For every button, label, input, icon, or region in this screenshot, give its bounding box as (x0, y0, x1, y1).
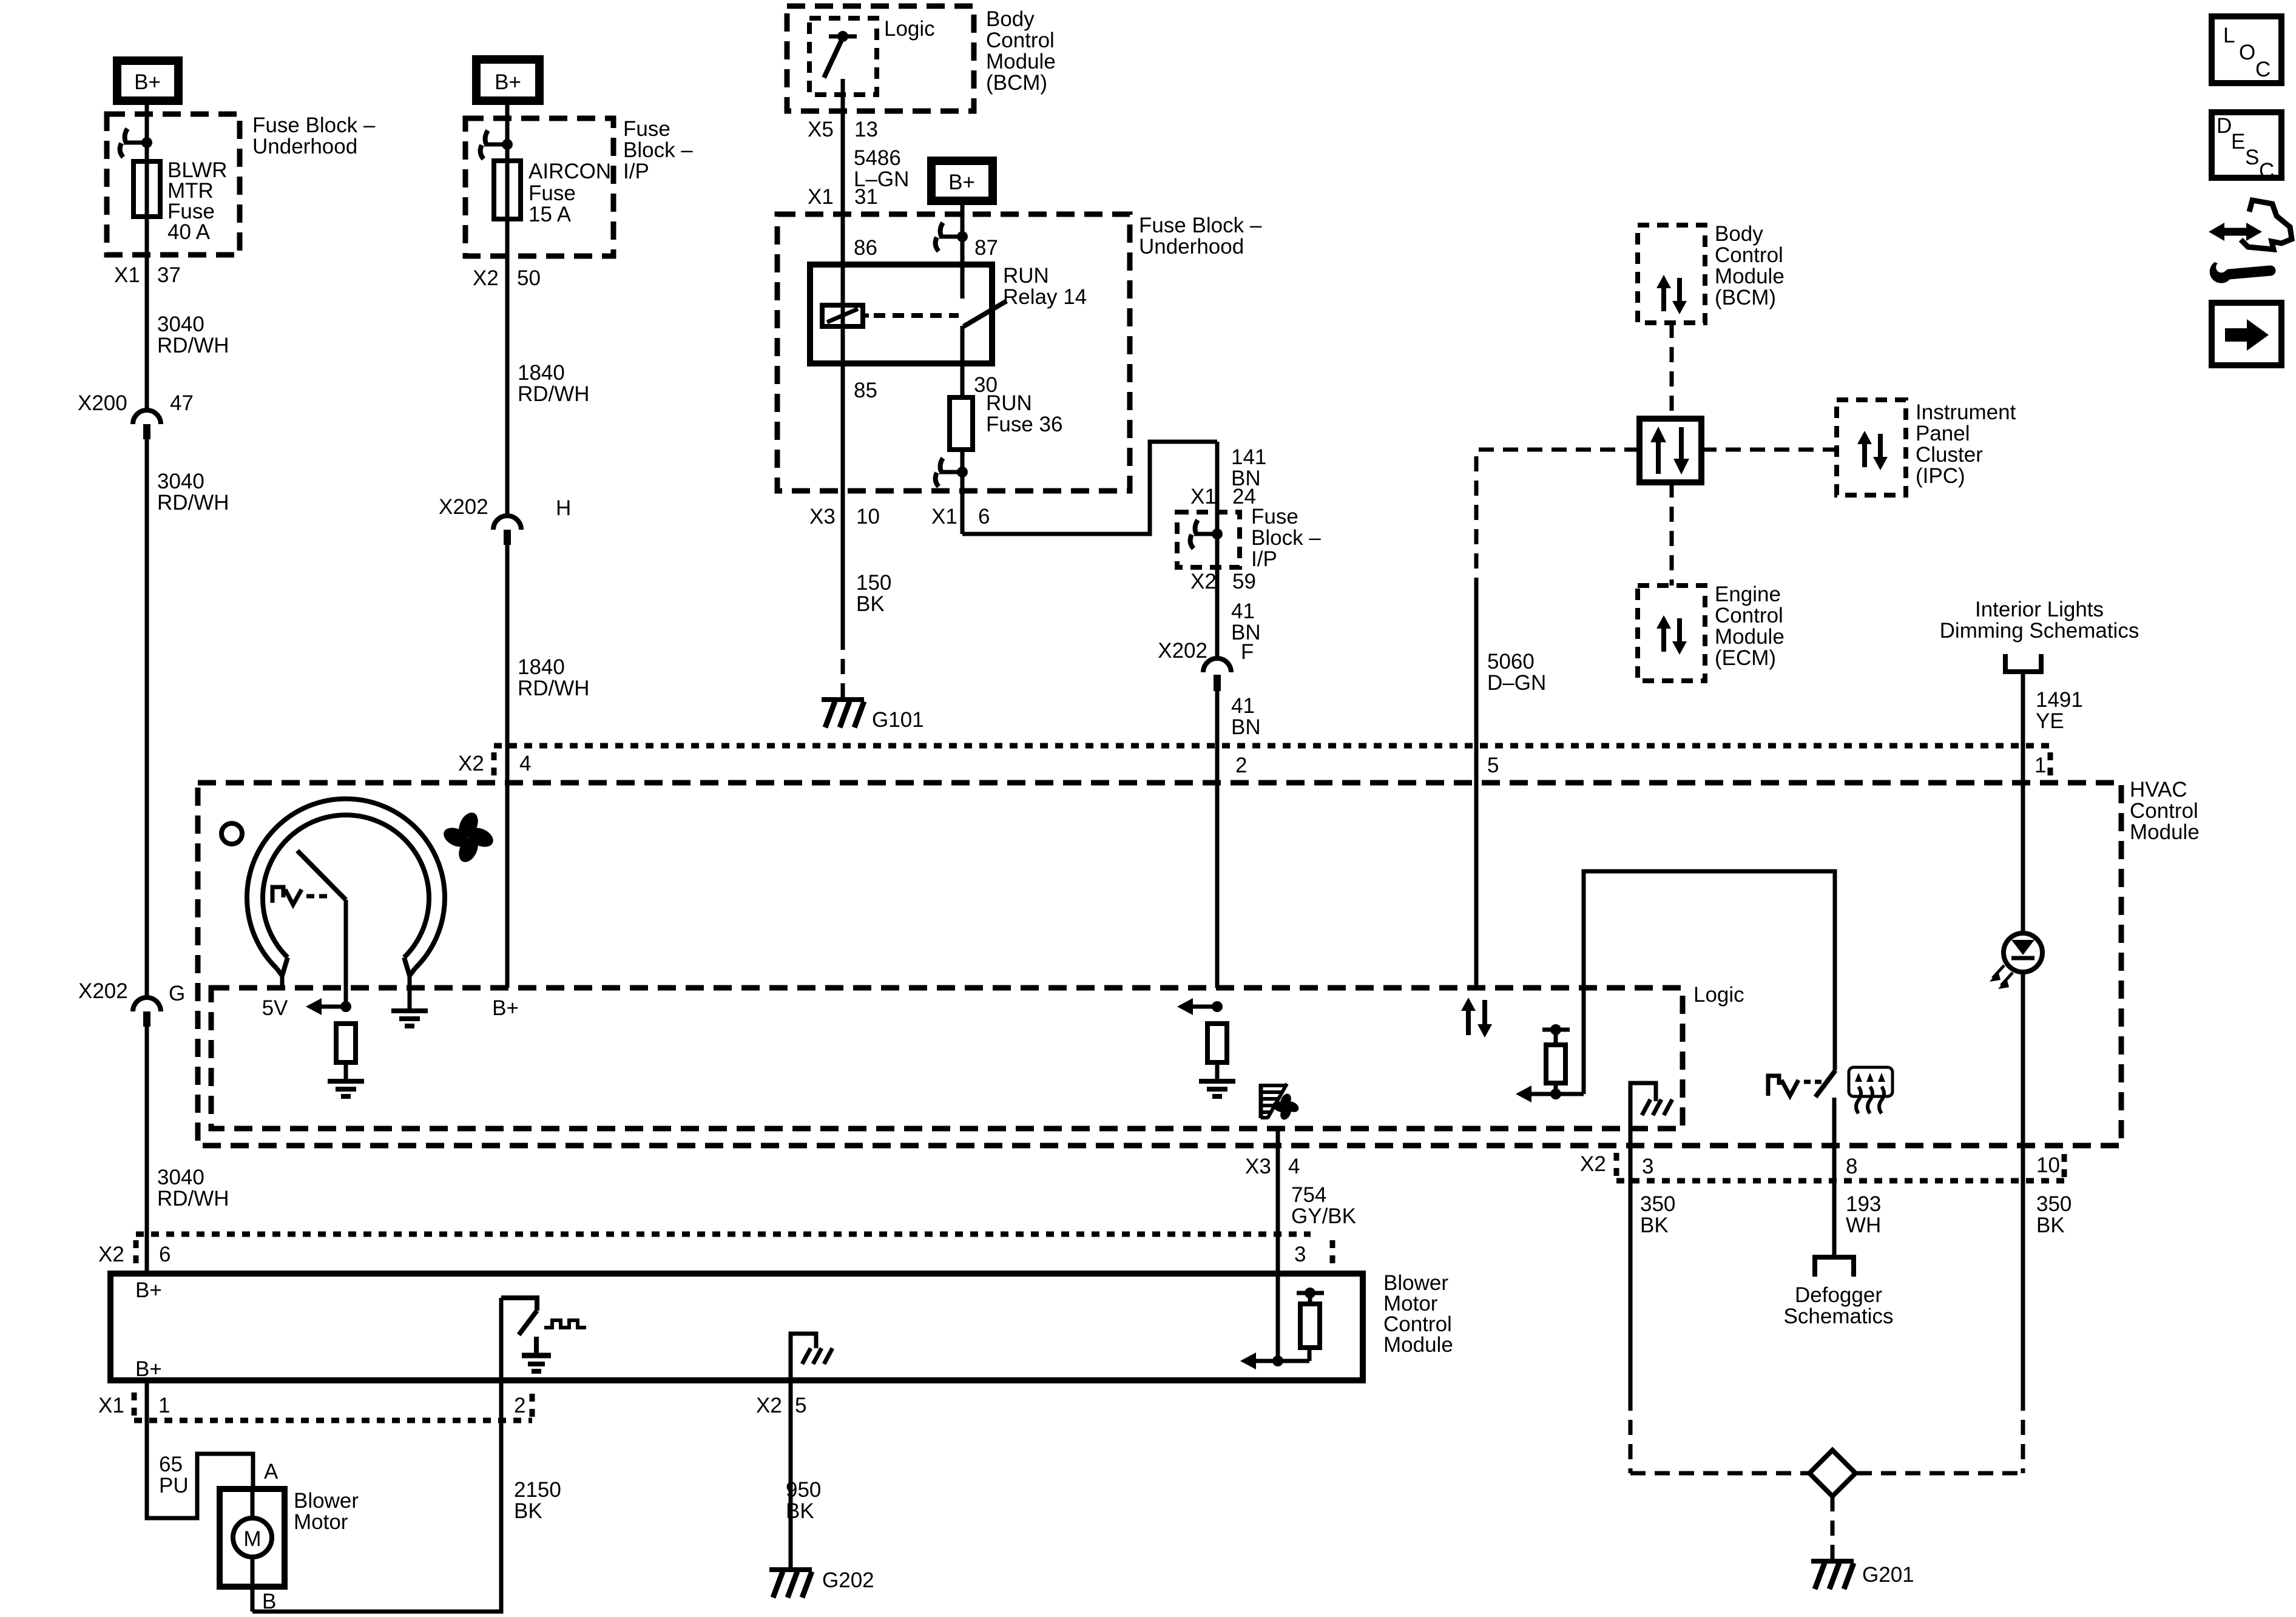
ground G201 (1811, 1561, 1914, 1589)
svg-text:37: 37 (157, 263, 181, 287)
label: Interior Lights Dimming Schematics (1940, 598, 2139, 643)
resistor: speed input bleed with rail bar (1297, 1288, 1324, 1361)
serial data arrows (HVAC pin 5 input) (1461, 998, 1492, 1038)
svg-text:Schematics: Schematics (1784, 1305, 1894, 1328)
svg-text:1491: 1491 (2036, 688, 2083, 712)
svg-text:6: 6 (978, 505, 990, 528)
svg-text:Module: Module (986, 50, 1056, 73)
svg-text:AIRCON: AIRCON (528, 160, 611, 183)
svg-text:H: H (556, 496, 571, 520)
svg-text:BN: BN (1231, 715, 1261, 739)
RUN Relay 14 box (810, 265, 992, 363)
svg-text:X5: X5 (808, 118, 834, 141)
wire: pin 3 dashed drop to splice (1629, 1396, 1633, 1473)
svg-text:B+: B+ (135, 1278, 162, 1302)
svg-text:RD/WH: RD/WH (157, 1187, 229, 1210)
wire: resistor to ground (344, 1062, 348, 1079)
svg-text:13: 13 (854, 118, 878, 141)
svg-text:Engine: Engine (1715, 582, 1781, 606)
wire label 193 WH (1846, 1192, 1881, 1237)
wire: relay pin 30 to RUN fuse 36 (961, 363, 965, 397)
wire: BCM X5-13 to relay coil pin 86 (841, 79, 845, 363)
wire label 41 BN (upper) (1231, 599, 1261, 644)
indicator circle (blower knob) (221, 823, 242, 844)
svg-text:G: G (169, 982, 185, 1005)
label: Fuse Block - I/P (623, 117, 693, 183)
transistor chopper (blower drive) (501, 1298, 537, 1335)
svg-text:31: 31 (854, 185, 878, 209)
svg-text:C: C (2259, 159, 2274, 183)
connector line X1 blower module bottom (dotted) (98, 1393, 532, 1420)
svg-text:X2: X2 (1190, 570, 1217, 593)
relay linkage (dashed) (874, 313, 959, 318)
svg-text:3: 3 (1294, 1243, 1306, 1266)
serial data arrows in IPC (1857, 431, 1888, 470)
wire: 5060 D-GN solid to HVAC pin 5 (1474, 584, 1479, 988)
label: RUN Fuse 36 (986, 391, 1062, 436)
wire label 350 BK (left) (1640, 1192, 1675, 1237)
wire: dashed ground bus to splice diamond (1630, 1471, 1808, 1476)
wire label 1840 RD/WH (upper) (518, 361, 590, 406)
label: Defogger Schematics (1784, 1283, 1894, 1328)
pin labels X3 | 4 (1245, 1155, 1300, 1178)
pin label X2 | 5 (blower module) (756, 1394, 806, 1417)
wire: pin 1 to blower motor terminal A (147, 1380, 253, 1518)
svg-text:Cluster: Cluster (1916, 443, 1983, 467)
connector line X2 at HVAC bottom (dotted) (1580, 1152, 2064, 1181)
fuse block underhood dashed box (left) (107, 114, 240, 255)
label: RUN Relay 14 (1003, 264, 1087, 309)
svg-text:Logic: Logic (884, 17, 935, 41)
wire: logic to defogger switch loop (1584, 871, 1835, 1094)
wire label 3040 RD/WH (upper) (157, 312, 229, 357)
svg-text:Relay 14: Relay 14 (1003, 285, 1087, 309)
battery feed B+ symbol 1 (BLWR MTR circuit) (117, 61, 178, 101)
svg-text:B+: B+ (135, 1357, 162, 1381)
connector hook below fuse 36 (936, 458, 968, 487)
pin labels X5 | 13 (808, 118, 878, 141)
svg-text:50: 50 (517, 266, 541, 290)
svg-text:X2: X2 (473, 266, 499, 290)
dashed serial data wire splice to IPC (1701, 448, 1837, 452)
svg-text:Interior Lights: Interior Lights (1975, 598, 2104, 621)
off-page reference bracket (interior lights dimming) (2005, 654, 2041, 672)
svg-text:87: 87 (974, 236, 998, 260)
svg-text:X1: X1 (931, 505, 957, 528)
svg-text:YE: YE (2036, 709, 2064, 733)
svg-text:A: A (264, 1460, 279, 1484)
wire label 1491 YE (2036, 688, 2083, 733)
serial data splice box (1639, 419, 1701, 482)
svg-text:2: 2 (1235, 754, 1247, 777)
connector X202 pin H (439, 495, 571, 545)
svg-text:2: 2 (514, 1394, 525, 1417)
label: Body Control Module (BCM) right (1715, 222, 1784, 309)
svg-text:141: 141 (1231, 445, 1266, 469)
wire label 3040 RD/WH (middle) (157, 470, 229, 515)
svg-text:(IPC): (IPC) (1916, 464, 1965, 488)
svg-text:350: 350 (1640, 1192, 1675, 1216)
resistor: pin 2 pulldown (1207, 1024, 1227, 1062)
svg-text:193: 193 (1846, 1192, 1881, 1216)
svg-text:Fuse: Fuse (1251, 505, 1298, 528)
node: pin 3 speed input with arrow (1240, 1274, 1309, 1369)
LOC reference box (2212, 16, 2281, 83)
blower motor (220, 1489, 285, 1612)
svg-text:G201: G201 (1862, 1563, 1914, 1587)
svg-text:D–GN: D–GN (1487, 671, 1546, 695)
dial wiper with variable-voltage mark (272, 851, 346, 1007)
svg-text:5060: 5060 (1487, 650, 1535, 673)
svg-text:5: 5 (795, 1394, 806, 1417)
svg-text:(BCM): (BCM) (986, 71, 1047, 95)
ground G202 (769, 1568, 874, 1598)
DESC reference box (2212, 112, 2281, 183)
splice diamond (1809, 1450, 1855, 1496)
body control module (BCM) dashed box (787, 6, 974, 111)
svg-text:Instrument: Instrument (1916, 400, 2016, 424)
label: Fuse Block - Underhood (relay) (1139, 214, 1262, 258)
svg-text:Underhood: Underhood (252, 135, 357, 158)
dashed serial data wire splice to ECM (1670, 482, 1674, 586)
svg-text:B+: B+ (948, 170, 975, 194)
svg-text:Dimming Schematics: Dimming Schematics (1940, 619, 2139, 643)
pin labels X1 | 37 (114, 263, 181, 287)
svg-text:Motor: Motor (294, 1510, 348, 1534)
svg-text:Control: Control (1715, 243, 1783, 267)
svg-text:Module: Module (1715, 265, 1784, 288)
svg-text:4: 4 (519, 752, 531, 775)
svg-text:Fuse Block –: Fuse Block – (252, 113, 376, 137)
svg-text:B+: B+ (492, 996, 519, 1020)
svg-text:41: 41 (1231, 599, 1255, 623)
connector line X2 at HVAC top (dotted) (458, 746, 2050, 775)
svg-text:X2: X2 (98, 1243, 124, 1266)
svg-text:754: 754 (1291, 1183, 1326, 1207)
svg-text:D: D (2217, 114, 2232, 138)
svg-text:(BCM): (BCM) (1715, 286, 1776, 309)
engine control module (ECM) dashed box (1638, 586, 1705, 681)
connector hook at BLWR fuse feed (120, 129, 152, 157)
wire: pin 5 to G202 (789, 1380, 793, 1568)
resistor: logic feedback with rail bar (1542, 1024, 1570, 1099)
pin labels X3 | 10 (809, 505, 880, 528)
node: feedback arrow to logic (1516, 1085, 1584, 1102)
svg-text:Body: Body (1715, 222, 1763, 246)
svg-text:59: 59 (1232, 570, 1256, 593)
svg-text:65: 65 (159, 1453, 183, 1476)
relay switch blade (964, 301, 1007, 326)
svg-text:15 A: 15 A (528, 203, 572, 226)
svg-text:BK: BK (1640, 1214, 1669, 1237)
wire: module ground pin 5 internal with case ground (791, 1334, 832, 1380)
svg-text:Fuse 36: Fuse 36 (986, 413, 1062, 436)
wire label 1840 RD/WH (lower) (518, 655, 590, 700)
svg-text:S: S (2245, 146, 2259, 169)
svg-text:X3: X3 (1245, 1155, 1271, 1178)
svg-text:X2: X2 (756, 1394, 782, 1417)
svg-text:BK: BK (2036, 1214, 2065, 1237)
wire: X200 to X202 G (145, 439, 149, 998)
svg-text:1: 1 (2034, 754, 2046, 777)
dashed serial data wire BCM to splice box (1670, 323, 1674, 419)
svg-text:RD/WH: RD/WH (518, 677, 590, 700)
wire: B+ to relay pin 87 (961, 204, 965, 299)
svg-text:X2: X2 (458, 752, 484, 775)
connector hook at AIRCON fuse feed (481, 130, 513, 159)
wire: 1491 YE to HVAC pin 1 and LED (2021, 672, 2025, 934)
ground G101 (822, 700, 924, 732)
resistor: wiper pulldown (336, 1024, 356, 1062)
svg-text:6: 6 (159, 1243, 171, 1266)
svg-text:3040: 3040 (157, 1166, 204, 1189)
wire: fuse 36 to corner (961, 450, 965, 534)
wire: X202 H to HVAC pin 4 (505, 545, 510, 988)
fuse block I/P dashed box (AIRCON) (465, 118, 613, 256)
fuse RUN Fuse 36 (950, 397, 973, 450)
wire label 5060 D-GN (1487, 650, 1546, 695)
svg-text:B+: B+ (495, 70, 521, 94)
svg-text:85: 85 (854, 379, 877, 402)
fuse block I/P small dashed box (1177, 512, 1240, 567)
svg-text:47: 47 (170, 391, 194, 415)
wire: motor B return to pin 2 (252, 1380, 501, 1612)
serial data arrows in BCM (1656, 275, 1687, 314)
wire: chopper to pin 2 (499, 1298, 504, 1380)
connector X202 pin F (1158, 639, 1254, 691)
svg-text:(ECM): (ECM) (1715, 646, 1776, 670)
svg-text:RUN: RUN (1003, 264, 1049, 288)
svg-text:5V: 5V (262, 996, 288, 1020)
fan icon (small, speed output) (1271, 1092, 1301, 1122)
pin labels X1 | 6 (931, 505, 990, 528)
wire: defogger switch to pin 8 (1832, 1098, 1837, 1255)
connector X200 pin 47 (78, 391, 194, 439)
svg-text:GY/BK: GY/BK (1291, 1204, 1356, 1228)
svg-text:C: C (2255, 58, 2271, 81)
svg-text:1840: 1840 (518, 655, 565, 679)
svg-text:G202: G202 (822, 1568, 874, 1592)
svg-text:BK: BK (514, 1499, 542, 1523)
wire label 350 BK (right) (2036, 1192, 2071, 1237)
wire label 950 BK (786, 1478, 821, 1523)
label: Blower Motor Control Module (1383, 1271, 1453, 1357)
svg-text:5: 5 (1487, 754, 1499, 777)
svg-text:Blower: Blower (294, 1489, 359, 1513)
svg-text:10: 10 (856, 505, 880, 528)
label: BLWR MTR Fuse 40 A (167, 158, 228, 244)
svg-text:Fuse: Fuse (528, 181, 576, 205)
pin labels X1 | 31 (808, 185, 878, 209)
dashed serial data wire splice to HVAC (5060) (1476, 450, 1639, 584)
wire label 150 BK (856, 571, 891, 616)
LED indicator (backlight) (1990, 933, 2042, 989)
ground (wiper pulldown) (328, 1081, 364, 1096)
svg-text:Control: Control (1715, 604, 1783, 627)
connector line X2 blower module top (dotted) (98, 1234, 1332, 1266)
svg-text:X1: X1 (808, 185, 834, 209)
label: Instrument Panel Cluster (IPC) (1916, 400, 2016, 488)
svg-text:O: O (2239, 41, 2255, 64)
fuse block underhood dashed box (relay) (777, 214, 1130, 491)
svg-text:Fuse Block –: Fuse Block – (1139, 214, 1262, 237)
off-page reference bracket (defogger schematics) (1815, 1257, 1854, 1277)
svg-text:1840: 1840 (518, 361, 565, 385)
service/repair vehicle icon (2209, 200, 2292, 283)
wire label 2150 BK (514, 1478, 561, 1523)
svg-text:PU: PU (159, 1474, 189, 1497)
svg-text:BK: BK (856, 592, 885, 616)
svg-text:5486: 5486 (854, 146, 901, 170)
svg-text:B+: B+ (134, 70, 161, 94)
svg-text:4: 4 (1288, 1155, 1300, 1178)
blower speed output icon (ramp and fan) (1261, 1084, 1287, 1118)
wire label 141 BN (1231, 445, 1266, 490)
svg-text:L: L (2223, 24, 2235, 47)
connector hook inside fuse block I/P (1190, 520, 1223, 549)
svg-text:3040: 3040 (157, 470, 204, 493)
svg-text:I/P: I/P (1251, 547, 1277, 571)
svg-text:Underhood: Underhood (1139, 235, 1244, 258)
svg-text:WH: WH (1846, 1214, 1881, 1237)
defogger heater icon (1849, 1067, 1893, 1113)
node: wiper sense with arrow to logic (306, 998, 351, 1015)
wire: 141 BN down to HVAC pin 2 (1215, 442, 1220, 659)
wire: diamond dashed drop to G201 (1831, 1496, 1835, 1559)
wire: B+ to AIRCON fuse to X202 H (505, 104, 510, 515)
svg-text:Block –: Block – (623, 138, 693, 162)
HVAC internal logic dashed box (211, 988, 1683, 1129)
svg-text:350: 350 (2036, 1192, 2071, 1216)
blower motor control module box (110, 1274, 1363, 1380)
ground (pin 2 pulldown) (1199, 1081, 1235, 1096)
fan icon (blower speed control) (441, 809, 496, 865)
PWM waveform icon (544, 1320, 586, 1328)
label: HVAC Control Module (2130, 778, 2200, 844)
connector hook at relay pin 87 feed (936, 223, 968, 251)
svg-text:F: F (1241, 640, 1254, 664)
wire: pin 10 dashed drop to splice (2021, 1396, 2025, 1473)
svg-text:2150: 2150 (514, 1478, 561, 1502)
svg-text:E: E (2231, 130, 2245, 154)
svg-text:Control: Control (2130, 799, 2198, 823)
svg-text:I/P: I/P (623, 160, 649, 183)
wire label 3040 RD/WH (lower) (157, 1166, 229, 1210)
pin labels X2 | 50 (473, 266, 541, 290)
label: Body Control Module (BCM) (986, 7, 1056, 95)
svg-text:RD/WH: RD/WH (157, 334, 229, 357)
svg-text:M: M (243, 1527, 261, 1551)
wire label 754 GY/BK (1291, 1183, 1356, 1228)
svg-text:X1: X1 (114, 263, 140, 287)
svg-text:Block –: Block – (1251, 526, 1321, 550)
wire label 41 BN (lower) (1231, 694, 1261, 739)
HVAC control module dashed box (198, 783, 2121, 1146)
wire: HVAC ground pin 3 internal with case ground (1630, 1083, 1672, 1396)
svg-text:RUN: RUN (986, 391, 1032, 415)
instrument panel cluster (IPC) dashed box (1837, 400, 1906, 495)
body control module (BCM) serial data dashed box (1638, 225, 1705, 323)
ground (chopper reference) (522, 1337, 551, 1371)
svg-text:X1: X1 (98, 1394, 124, 1417)
pin labels X2 | 59 (1190, 570, 1256, 593)
svg-text:X3: X3 (809, 505, 836, 528)
svg-text:Module: Module (2130, 820, 2200, 844)
svg-text:86: 86 (854, 236, 877, 260)
battery feed B+ symbol 2 (AIRCON circuit) (476, 59, 539, 101)
svg-text:150: 150 (856, 571, 891, 595)
wire: dashed drop to G101 (841, 635, 845, 698)
serial data arrows in splice box (1650, 427, 1689, 474)
wire: LED to pin 10 (2021, 971, 2025, 1396)
fuse AIRCON 15A (494, 161, 521, 219)
svg-text:Panel: Panel (1916, 422, 1970, 445)
wire: HVAC X3-4 speed signal to blower module pin 3 (1276, 1129, 1280, 1274)
serial data arrows in ECM (1656, 615, 1687, 655)
svg-text:Fuse: Fuse (623, 117, 670, 141)
thermal switch (defogger control) (1768, 1070, 1835, 1097)
pin labels X1 | 24 (1190, 485, 1256, 508)
svg-text:Module: Module (1715, 625, 1784, 649)
wire: B+ to BLWR MTR fuse to X200 (145, 104, 149, 410)
wire: relay pin 30 pivot (961, 326, 965, 363)
svg-text:Body: Body (986, 7, 1035, 31)
svg-text:X2: X2 (1580, 1152, 1606, 1176)
svg-text:10: 10 (2036, 1153, 2060, 1177)
label: AIRCON Fuse 15 A (528, 160, 611, 226)
svg-text:40 A: 40 A (167, 220, 211, 244)
relay coil (822, 305, 869, 326)
svg-text:G101: G101 (872, 708, 924, 732)
svg-text:41: 41 (1231, 694, 1255, 718)
svg-text:Module: Module (1383, 1333, 1453, 1357)
next-page arrow box (2212, 303, 2281, 365)
wire: relay pin 85 to G101 (solid part) (841, 363, 845, 635)
ground (dial right leg) (391, 1011, 428, 1026)
wire: X202 G to blower motor control module (145, 1027, 149, 1274)
svg-text:Control: Control (986, 29, 1055, 52)
svg-text:X200: X200 (78, 391, 127, 415)
svg-text:3040: 3040 (157, 312, 204, 336)
node: pin 2 input with arrow to logic (1177, 998, 1223, 1015)
switch inside BCM logic (824, 31, 857, 78)
wire: run feed jog to fuse block I/P (141 BN) (962, 442, 1217, 534)
svg-text:HVAC: HVAC (2130, 778, 2187, 802)
svg-text:X1: X1 (1190, 485, 1217, 508)
label: Fuse Block - Underhood (252, 113, 376, 158)
connector X202 pin G (78, 979, 185, 1027)
svg-text:RD/WH: RD/WH (157, 491, 229, 515)
svg-text:X202: X202 (439, 495, 488, 519)
svg-text:Defogger: Defogger (1795, 1283, 1882, 1307)
blower speed dial (rotary control) (247, 798, 445, 1009)
wire label 65 PU (159, 1453, 189, 1497)
svg-text:1: 1 (158, 1394, 170, 1417)
BCM inner Logic dashed box (809, 18, 877, 95)
wire label 5486 L-GN (854, 146, 909, 191)
wire: resistor to ground (1215, 1062, 1220, 1079)
battery feed B+ symbol 3 (RUN relay feed) (931, 161, 993, 201)
svg-text:X202: X202 (1158, 639, 1207, 663)
svg-text:RD/WH: RD/WH (518, 382, 590, 406)
svg-text:Logic: Logic (1693, 983, 1744, 1007)
svg-text:8: 8 (1846, 1155, 1857, 1178)
label: Blower Motor (294, 1489, 359, 1534)
label: Fuse Block - I/P (small) (1251, 505, 1321, 571)
fuse BLWR MTR 40A (133, 161, 160, 217)
label: Engine Control Module (ECM) (1715, 582, 1784, 670)
svg-text:3: 3 (1642, 1155, 1653, 1178)
